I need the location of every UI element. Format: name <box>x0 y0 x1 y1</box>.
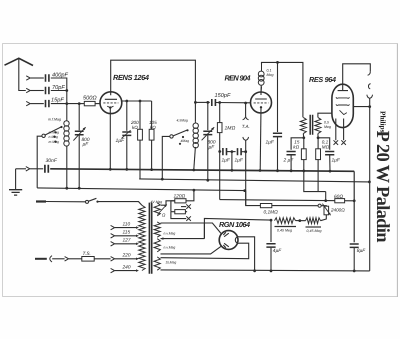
arrowhead hum pot <box>328 213 330 216</box>
node anode out <box>368 105 371 108</box>
svg-text:4µF: 4µF <box>273 248 282 254</box>
connector speaker plug hook <box>368 71 371 75</box>
node heater bus 120ohm <box>193 189 196 192</box>
svg-text:1µF: 1µF <box>116 138 126 144</box>
wire 1M top <box>219 103 221 123</box>
capacitor 400pF <box>46 74 49 81</box>
wire earth vertical <box>15 169 17 190</box>
switch band selector pivot <box>42 134 45 137</box>
connector mains tap 127 <box>111 242 115 246</box>
arrowhead tap 127 <box>136 243 139 246</box>
svg-text:REN 904: REN 904 <box>225 74 251 83</box>
resistor field coil 2 <box>306 218 321 224</box>
wire 8uF down <box>353 248 355 271</box>
wire C6 to bus <box>126 136 128 169</box>
capacitor 15pF <box>46 100 49 107</box>
wire V4 output <box>239 237 255 271</box>
switch band selector arm <box>45 127 62 135</box>
tube V3 grid 1 <box>336 97 349 98</box>
wire 1M bottom <box>219 133 221 152</box>
svg-text:220: 220 <box>122 253 131 259</box>
resistor R3 <box>149 129 154 140</box>
resistor R2 <box>138 129 143 140</box>
transformer core <box>149 203 151 274</box>
svg-text:30nF: 30nF <box>46 158 58 164</box>
wire C13 to bus <box>329 156 331 172</box>
arrow heater slider <box>158 205 167 215</box>
node bus R7 <box>302 170 305 173</box>
wire antenna lead <box>19 59 26 91</box>
node coil tap 4 <box>54 141 56 143</box>
svg-text:110: 110 <box>123 222 131 228</box>
wire tap 115 <box>115 235 136 237</box>
node bus C12 <box>290 169 293 172</box>
node V4 output bus <box>253 269 256 272</box>
node 60ohm left <box>324 199 327 202</box>
fuse T.S. <box>82 257 94 262</box>
node box right <box>194 101 197 104</box>
wire bottom bus <box>161 270 370 271</box>
svg-text:115: 115 <box>123 230 131 236</box>
wire x1 lead <box>181 206 186 208</box>
wire fuse to 220 plug <box>94 258 110 260</box>
connector TA upper fork <box>243 116 249 120</box>
svg-text:8µF: 8µF <box>357 248 366 254</box>
wire to R1 <box>79 103 84 105</box>
connector antenna plug 1 <box>26 76 30 80</box>
connector earth plug <box>26 167 30 171</box>
wire speaker fork down <box>369 98 371 106</box>
node secondary bottom <box>317 136 320 139</box>
arrow variable cap C8 <box>202 127 215 140</box>
connector mains plug <box>65 257 69 261</box>
capacitor 150pF <box>212 99 216 106</box>
wire HV lead B <box>161 246 222 254</box>
resistor 60 ohm <box>335 199 345 203</box>
node bus V2 cathode <box>259 169 262 172</box>
ground symbol <box>9 190 22 195</box>
inductor anode choke <box>258 62 264 92</box>
wire bus1 corner down <box>353 171 355 242</box>
svg-text:0,45 Meg: 0,45 Meg <box>277 228 292 232</box>
node anode R2 <box>139 100 142 103</box>
wire R7 to bus <box>303 160 305 171</box>
potentiometer hum 2400 ohm <box>324 206 329 215</box>
wire caps line <box>220 151 222 153</box>
wire secondary bottom <box>317 134 319 138</box>
arrowhead tap 220 <box>136 258 139 261</box>
capacitor C9b 1uF <box>238 148 242 155</box>
page border <box>3 44 398 297</box>
arrowhead tap 115 <box>136 235 139 238</box>
transformer rectifier heater winding S3 <box>154 257 160 270</box>
svg-text:127: 127 <box>123 238 131 244</box>
svg-text:15pF: 15pF <box>51 98 64 104</box>
resistor 120 ohm <box>175 199 186 203</box>
node screen bus switch <box>161 178 164 181</box>
capacitor C13 1uF <box>325 152 334 155</box>
connector antenna plug 3 <box>26 101 30 105</box>
wire bias branch <box>246 191 261 206</box>
wire C10 drop <box>277 62 279 132</box>
node fb contact 1 <box>186 129 188 131</box>
connector mains tap 220 <box>111 257 115 261</box>
svg-text:RGN 1064: RGN 1064 <box>219 220 250 229</box>
wire U to 60ohm line <box>325 192 327 201</box>
svg-text:Meg: Meg <box>324 125 331 129</box>
tube V3 anode <box>338 84 348 90</box>
wire R2 top <box>139 101 141 129</box>
svg-text:240: 240 <box>122 265 131 271</box>
resistor 500 ohm <box>84 101 95 105</box>
wire bias to pot <box>272 205 318 207</box>
wire fb pivot to screen bus <box>162 136 170 179</box>
svg-text:St.Mag: St.Mag <box>166 260 177 264</box>
antenna <box>5 58 34 65</box>
wire V3 heater lead 1 <box>335 119 337 141</box>
wire caps mid <box>227 151 236 153</box>
node primary bottom <box>302 136 305 139</box>
svg-text:4,5Mag: 4,5Mag <box>177 118 188 122</box>
wire tuning cap2 top <box>207 102 209 130</box>
wire plug to C5 <box>30 168 43 170</box>
page right edge <box>396 44 398 298</box>
node coil tap 3 <box>53 136 55 138</box>
wire C10 to bus <box>277 137 279 170</box>
terminal heater x1 <box>334 140 339 145</box>
wire V3 anode out <box>353 106 369 108</box>
tube V2 grid <box>254 102 269 104</box>
resistor field coil 1 <box>275 218 296 224</box>
resistor R7 15k <box>301 149 306 160</box>
tube V2 REN 904 envelope <box>251 92 272 113</box>
wire right rail <box>369 107 371 271</box>
wire heater bus <box>37 188 245 191</box>
node grid junction <box>65 102 68 105</box>
wire C6 drop <box>126 101 128 131</box>
potentiometer hum pivot <box>318 204 321 207</box>
node grid line tap <box>206 101 209 104</box>
wire V1 grid cap riser <box>111 60 196 102</box>
wire C2 to node <box>51 90 67 92</box>
wire to C3 <box>31 103 44 105</box>
tube V1 anode <box>105 92 117 99</box>
wire switch to primary <box>98 202 142 206</box>
wire grid line <box>195 101 209 103</box>
wire to C12 <box>291 138 304 150</box>
wire coil bottom <box>66 146 68 188</box>
wire 120ohm right <box>186 190 194 201</box>
node bus C6 <box>125 168 128 171</box>
wire caps right down <box>245 152 247 206</box>
capacitor C10 1uF <box>273 133 282 136</box>
resistor R8 0.1M <box>316 149 321 160</box>
wire HV tap link <box>203 223 205 239</box>
node V1 cathode <box>109 106 111 108</box>
wire tap 220 <box>115 258 136 260</box>
wire x2 lead <box>171 212 186 219</box>
wire caps right <box>241 151 246 153</box>
node 60ohm right <box>353 199 356 202</box>
wire mains lead 2 <box>52 258 64 260</box>
wire bias feed <box>220 200 355 201</box>
connector TA lower fork <box>243 137 249 140</box>
transformer heater winding S1 <box>154 203 160 216</box>
svg-text:kΩ: kΩ <box>293 144 299 149</box>
terminal heater x2 <box>341 140 346 145</box>
wire to C1 <box>31 77 44 79</box>
wire 4uF down <box>270 248 272 271</box>
svg-text:500Ω: 500Ω <box>83 96 97 102</box>
arrowhead C4 <box>83 127 86 130</box>
wire mains lead 1 start <box>36 200 46 202</box>
node bus R3 <box>150 168 153 171</box>
capacitor 8uF <box>350 244 359 247</box>
wire caps left down <box>219 152 221 200</box>
wire to C13 <box>318 138 330 150</box>
wire rgn top feed <box>204 219 271 239</box>
svg-text:n.v.Mag: n.v.Mag <box>164 231 176 235</box>
wire screen bus <box>139 179 369 182</box>
wire primary bottom <box>302 134 305 138</box>
node caps left <box>218 150 221 153</box>
wire mains lead 2 start <box>35 258 47 260</box>
svg-text:1µF: 1µF <box>222 158 231 164</box>
wire C12 to bus <box>290 156 292 171</box>
wire tuning cap top <box>78 104 80 131</box>
tube V4 filament terminal <box>235 237 238 244</box>
capacitor C9a 1uF <box>223 148 227 155</box>
wire switch to ground bus <box>37 136 42 188</box>
node fb contact 3 <box>179 143 181 145</box>
wire zigzag2 to pot <box>321 215 327 221</box>
wire mains lead 1 <box>46 201 85 203</box>
arrow variable cap C4 <box>73 127 85 140</box>
transformer interstage primary <box>300 117 306 133</box>
arrowhead C8 <box>211 127 214 130</box>
connector mains tap 110 <box>111 225 115 229</box>
wire tap 110 <box>115 227 136 229</box>
transformer interstage secondary <box>315 117 321 133</box>
node coil tap 2 <box>54 131 56 133</box>
svg-text:2 µF: 2 µF <box>283 158 295 164</box>
transformer mains primary <box>139 205 145 270</box>
arrow C6 <box>121 130 130 138</box>
resistor heater hum <box>175 210 186 214</box>
node supply C10 <box>276 61 279 64</box>
svg-text:Meg: Meg <box>267 73 274 77</box>
svg-text:n.v.Mag: n.v.Mag <box>164 245 176 249</box>
wire V3 top to speaker <box>343 64 371 84</box>
tube V3 cathode <box>340 110 347 114</box>
wire TA fork down <box>245 140 247 151</box>
tube V4 RGN 1064 envelope <box>219 231 238 250</box>
wire R3 to bus <box>151 140 153 170</box>
wire tuning cap2 bottom <box>207 135 209 180</box>
wire TA stem <box>245 103 247 116</box>
wire R3 top <box>151 101 153 129</box>
svg-text:2400Ω: 2400Ω <box>330 207 345 212</box>
wire C3 to grid node <box>51 103 79 105</box>
connector mains tap 115 <box>111 234 115 238</box>
wire V1 cathode down <box>109 108 111 170</box>
tube V1 cathode <box>107 106 113 107</box>
wire V3 heater lead 2 <box>343 119 345 141</box>
terminal heater tap x2 <box>186 216 191 221</box>
node anode C6 <box>125 100 128 103</box>
node bus C13 <box>329 170 332 173</box>
wire R8 top <box>317 138 319 149</box>
svg-text:0,1MΩ: 0,1MΩ <box>264 209 279 215</box>
svg-text:0,45 Meg: 0,45 Meg <box>307 229 322 233</box>
wire R8 down <box>317 160 319 192</box>
svg-text:RES 964: RES 964 <box>309 75 336 84</box>
wire earth lead <box>16 168 26 170</box>
node coil tap 1 <box>60 126 62 128</box>
inductor antenna coil <box>64 120 69 147</box>
svg-text:70pF: 70pF <box>52 85 65 91</box>
wire tuning cap bottom <box>78 135 80 188</box>
wire 150pF to V2 grid <box>216 102 251 104</box>
arrowhead tap 240 <box>136 269 139 272</box>
wire V1 anode line <box>122 100 152 102</box>
connector mains tap 240 <box>111 268 115 272</box>
capacitor 70pF <box>46 87 49 94</box>
wire between zigzags <box>296 220 306 222</box>
resistor 1Mohm <box>217 123 222 133</box>
underline field coil 1 <box>275 226 297 228</box>
svg-text:P 20 W Paladin: P 20 W Paladin <box>372 131 392 244</box>
wire feedback coil to bus <box>194 147 196 170</box>
node filter input <box>270 219 273 222</box>
node between zigzags <box>298 219 301 222</box>
svg-text:4Mag: 4Mag <box>181 139 190 143</box>
wire U link <box>304 171 326 192</box>
wire R2 to screen bus <box>139 140 141 179</box>
switch feedback arm <box>173 130 188 136</box>
wire caps mid to bus <box>231 152 233 171</box>
svg-text:1µF: 1µF <box>235 158 244 164</box>
underline field coil 2 <box>306 226 322 228</box>
wire pot top <box>321 205 326 208</box>
node fb contact 2 <box>182 136 184 138</box>
arrowhead heater slider <box>164 205 167 208</box>
switch mains pivot <box>86 200 89 203</box>
wire box right to coil <box>194 102 196 121</box>
tube V2 anode <box>255 92 267 99</box>
switch feedback pivot <box>170 135 173 138</box>
resistor bias 0.1M <box>260 204 271 208</box>
inductor feedback coil <box>193 122 198 148</box>
svg-text:n.Mag: n.Mag <box>49 135 59 139</box>
arrowhead tap 110 <box>136 226 139 229</box>
tube V3 grid 2 <box>336 104 349 105</box>
wire V2 anode up <box>260 87 263 93</box>
svg-text:m.f.Mag: m.f.Mag <box>48 118 61 122</box>
capacitor C6 1uF <box>122 132 131 135</box>
switch mains arm <box>88 198 96 201</box>
tube V1 grid <box>103 102 118 104</box>
wire 4uF up <box>270 220 272 242</box>
wire to fuse <box>69 258 82 260</box>
node 1M top <box>218 101 221 104</box>
connector speaker socket <box>368 84 370 89</box>
tube V1 RENS 1264 envelope <box>100 92 122 114</box>
tube V4 anode 2 <box>223 243 229 247</box>
wire S1 to heater <box>161 201 175 205</box>
connector speaker fork <box>367 95 373 99</box>
transformer HV winding S2a <box>154 222 160 237</box>
node bus C10 <box>276 169 279 172</box>
capacitor variable 800pF C4 <box>75 131 84 134</box>
wire tap 240 <box>115 270 136 272</box>
connector antenna plug 2 <box>26 88 30 92</box>
node heater bus right <box>243 189 246 192</box>
wire hum left <box>171 211 175 213</box>
node caps right <box>244 150 247 153</box>
node tuning junction <box>78 102 81 105</box>
node antenna tap A <box>65 89 68 92</box>
svg-text:RENS 1264: RENS 1264 <box>113 73 149 82</box>
node tuning cap2 on screen bus <box>206 179 209 182</box>
capacitor 30nF <box>45 165 48 173</box>
node V2 cathode <box>260 106 262 108</box>
svg-text:1MΩ: 1MΩ <box>225 126 236 132</box>
node bus C9 <box>231 169 234 172</box>
arrowhead HV centre tap <box>161 237 164 240</box>
node bus feedback coil <box>192 169 195 172</box>
transformer interstage core <box>310 115 312 135</box>
wire 120ohm left <box>171 201 175 212</box>
terminal heater tap x1 <box>186 204 191 209</box>
wire hum right <box>185 211 187 213</box>
arrow hum pot <box>322 204 330 216</box>
node heater bus varcap <box>78 187 81 190</box>
node TA top <box>244 102 247 105</box>
transformer HV winding S2b <box>154 239 160 252</box>
node 8uF bus <box>353 270 356 273</box>
svg-text:MΩ: MΩ <box>322 144 330 149</box>
node 4uF bus <box>270 270 273 273</box>
wire HV centre tap <box>161 238 205 240</box>
node screen bus end <box>368 181 371 184</box>
node mains switch contact <box>96 201 98 203</box>
tube V3 RES 964 envelope <box>332 84 353 127</box>
svg-text:1µF: 1µF <box>266 139 275 145</box>
wire secondary top to V3 grid <box>318 113 332 117</box>
svg-text:150pF: 150pF <box>215 93 231 99</box>
node bus V1 cathode <box>109 168 112 171</box>
wire HV lead A <box>161 223 222 234</box>
wire R7 top <box>303 138 305 149</box>
capacitor C12 2uF <box>287 152 296 155</box>
svg-text:T.A.: T.A. <box>242 124 250 129</box>
capacitor 4uF <box>266 244 275 247</box>
connector mains socket <box>50 256 52 262</box>
node heater bus coil <box>65 187 68 190</box>
capacitor variable 800pF C8 <box>203 131 212 134</box>
wire supply top <box>262 62 303 117</box>
tube V4 anode 1 <box>223 232 229 236</box>
node caps mid <box>231 150 234 153</box>
svg-text:Philips: Philips <box>379 111 388 133</box>
wire main bus <box>50 169 354 172</box>
wire node A down <box>66 91 68 120</box>
wire R1 to V1 grid <box>95 103 100 105</box>
wire V2 cathode down <box>259 107 262 170</box>
wire tap 127 <box>115 243 136 245</box>
wire V4 filament return <box>161 243 249 259</box>
